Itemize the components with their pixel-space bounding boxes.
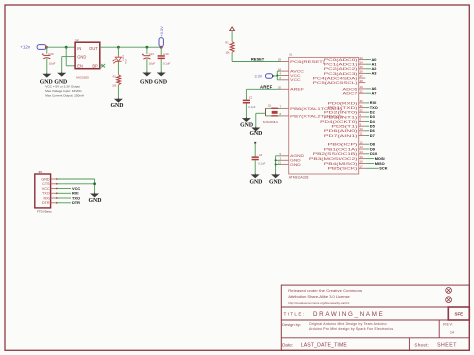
svg-text:GND: GND (269, 180, 282, 186)
svg-text:0.1uF: 0.1uF (248, 105, 255, 109)
svg-text:VCC: VCC (290, 77, 301, 82)
svg-text:DTR: DTR (72, 200, 80, 205)
svg-text:Red: Red (125, 59, 127, 64)
svg-text:10k: 10k (225, 50, 230, 54)
svg-text:TITLE:: TITLE: (284, 311, 306, 316)
svg-text:22: 22 (360, 89, 364, 93)
svg-text:Attribution Share-Alike 3.0 Li: Attribution Share-Alike 3.0 License (288, 294, 350, 299)
svg-text:OUT: OUT (89, 46, 98, 51)
svg-text:U1: U1 (289, 53, 293, 56)
svg-text:17: 17 (360, 165, 364, 169)
svg-text:A3: A3 (372, 71, 378, 76)
svg-text:GND: GND (89, 198, 102, 204)
svg-text:0.1uF: 0.1uF (163, 61, 171, 65)
svg-text:SFE: SFE (455, 312, 464, 317)
svg-text:AREF: AREF (260, 84, 273, 89)
svg-text:Date:: Date: (282, 343, 293, 348)
svg-text:PC5(ADC5SCL): PC5(ADC5SCL) (313, 80, 359, 85)
svg-text:MIC5205: MIC5205 (76, 75, 89, 79)
svg-text:28: 28 (360, 79, 364, 83)
svg-text:14: 14 (360, 150, 364, 154)
svg-text:14: 14 (450, 331, 454, 335)
svg-text:GND: GND (140, 79, 153, 85)
svg-text:12: 12 (360, 140, 364, 144)
svg-text:ADC7: ADC7 (343, 91, 359, 96)
svg-text:C4: C4 (259, 154, 263, 157)
svg-text:C13: C13 (149, 52, 155, 56)
svg-text:IN: IN (77, 46, 81, 51)
svg-text:VCC = 5V or 3.3V Output: VCC = 5V or 3.3V Output (45, 85, 80, 89)
svg-text:C20: C20 (48, 52, 54, 56)
svg-text:30: 30 (360, 99, 364, 103)
svg-text:Max Current Output: 150mA: Max Current Output: 150mA (45, 94, 85, 98)
svg-text:Released under the Creative Co: Released under the Creative Commons (288, 288, 362, 293)
svg-text:27: 27 (360, 74, 364, 78)
svg-text:Max Voltage Input: 16VDC: Max Voltage Input: 16VDC (45, 89, 82, 93)
svg-text:RESET: RESET (251, 56, 265, 61)
svg-text:http://creativecommons.org/lic: http://creativecommons.org/licenses/by-s… (288, 301, 349, 305)
svg-text:GND: GND (240, 122, 253, 128)
svg-text:PB5(SCK): PB5(SCK) (328, 166, 359, 171)
svg-text:24: 24 (360, 60, 364, 64)
svg-text:FTDI Basic: FTDI Basic (37, 209, 52, 213)
svg-text:29: 29 (278, 58, 282, 62)
svg-text:REV:: REV: (443, 322, 454, 326)
svg-text:Sheet:: Sheet: (414, 343, 429, 348)
svg-text:GND: GND (249, 131, 262, 137)
svg-text:13: 13 (360, 145, 364, 149)
svg-text:Q1: Q1 (268, 104, 272, 107)
svg-text:+3.3V: +3.3V (159, 26, 164, 37)
svg-text:3.3V: 3.3V (255, 74, 263, 78)
svg-text:D7: D7 (370, 133, 375, 138)
svg-text:JP1: JP1 (38, 171, 43, 174)
svg-text:RXI: RXI (43, 196, 49, 200)
svg-text:0.1uF: 0.1uF (258, 161, 265, 165)
svg-text:GND: GND (249, 180, 262, 186)
svg-text:GND: GND (111, 103, 124, 109)
svg-text:AREF: AREF (290, 87, 305, 92)
svg-text:A7: A7 (372, 91, 377, 96)
svg-text:15: 15 (360, 155, 364, 159)
svg-text:Design by:: Design by: (282, 322, 301, 327)
svg-text:25: 25 (360, 65, 364, 69)
svg-text:CTS: CTS (42, 182, 50, 186)
svg-text:EN: EN (77, 63, 83, 68)
svg-text:R1: R1 (225, 41, 229, 45)
svg-text:GND: GND (290, 162, 301, 167)
svg-text:23: 23 (360, 56, 364, 60)
svg-text:10k: 10k (112, 84, 117, 88)
svg-text:TXO: TXO (42, 192, 50, 196)
svg-text:26: 26 (360, 70, 364, 74)
svg-text:PD7(AIN1): PD7(AIN1) (324, 133, 359, 138)
svg-text:10uF: 10uF (49, 61, 56, 65)
svg-text:8/16/20MHz: 8/16/20MHz (263, 120, 279, 124)
svg-text:31: 31 (360, 104, 364, 108)
svg-text:Original Arduino Mini Design b: Original Arduino Mini Design by Team Ard… (309, 322, 387, 326)
svg-text:PC6(RESET): PC6(RESET) (290, 59, 325, 64)
svg-text:16: 16 (360, 160, 364, 164)
svg-text:DRAWING_NAME: DRAWING_NAME (313, 311, 384, 318)
svg-text:10uF: 10uF (149, 62, 156, 66)
svg-text:SCK: SCK (379, 166, 387, 171)
svg-text:C2: C2 (249, 97, 253, 100)
svg-text:+12v: +12v (20, 45, 31, 50)
svg-text:VCC: VCC (42, 187, 50, 191)
svg-text:GND: GND (154, 79, 167, 85)
svg-text:BP: BP (92, 63, 98, 68)
svg-text:R1: R1 (113, 75, 117, 79)
svg-text:LAST_DATE_TIME: LAST_DATE_TIME (301, 343, 348, 349)
svg-text:GND: GND (41, 177, 50, 181)
svg-text:11: 11 (360, 132, 363, 136)
svg-text:Arduino Pro Mini design by Spa: Arduino Pro Mini design by Spark Fun Ele… (309, 327, 393, 331)
svg-text:C10: C10 (163, 52, 169, 56)
svg-text:10: 10 (360, 127, 364, 131)
svg-text:32: 32 (360, 108, 364, 112)
svg-text:SHEET: SHEET (437, 343, 457, 349)
svg-text:ATMEGA328: ATMEGA328 (289, 176, 309, 180)
svg-text:DTR: DTR (42, 201, 50, 205)
svg-text:GND: GND (77, 54, 86, 59)
